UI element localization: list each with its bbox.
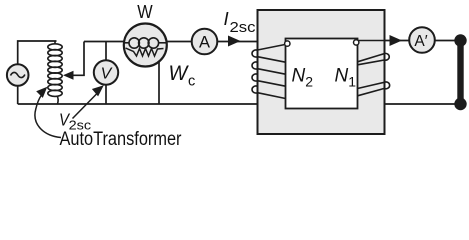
ammeter A: [192, 29, 218, 55]
wire bottom right: [385, 103, 461, 105]
autotransformer tap wiper wire: [70, 42, 84, 76]
svg-text:c: c: [188, 73, 195, 89]
svg-text:W: W: [137, 1, 153, 22]
voltmeter branch wire: [105, 42, 107, 105]
svg-text:N: N: [335, 66, 349, 87]
winding N1 top wire: [359, 40, 385, 42]
winding N1 diagonal 1a: [358, 54, 385, 62]
transformer core outer box: [258, 10, 385, 134]
winding N2 diagonal 1: [258, 57, 286, 63]
winding N1 diagonal 1b: [358, 60, 385, 65]
winding N1 diagonal 2a: [358, 82, 385, 88]
winding N1 hook 1: [384, 53, 389, 60]
junction dot bottom: [454, 98, 466, 110]
svg-text:2: 2: [305, 74, 313, 90]
winding N1 hook 2: [384, 82, 389, 89]
svg-text:V: V: [101, 66, 113, 83]
winding N2: [252, 45, 285, 99]
ammeter A': [409, 27, 435, 53]
svg-text:2sc: 2sc: [230, 20, 256, 36]
voltmeter V: [94, 60, 118, 84]
transformer core window (white box): [286, 39, 358, 109]
svg-text:AutoTransformer: AutoTransformer: [60, 129, 183, 149]
pointer arrowhead to coil: [36, 87, 47, 98]
output wire to A': [385, 40, 411, 42]
svg-text:I: I: [224, 8, 229, 29]
winding N2 top diagonal: [258, 45, 286, 51]
winding N2 hook 1: [252, 50, 257, 57]
pointer arrow to coil (curved): [35, 95, 61, 138]
wire bottom rail: [18, 103, 258, 105]
ac source G1: [7, 64, 29, 86]
winding N1 diagonal 2b: [358, 88, 385, 95]
winding N2 hook 2: [252, 62, 257, 69]
autotransformer tap arrowhead: [63, 71, 74, 80]
junction dot top: [454, 34, 466, 46]
wattmeter voltage zigzag: [126, 48, 164, 56]
wire top rail: [84, 41, 286, 43]
winding N2 hook 3: [252, 74, 257, 81]
winding N1: [358, 41, 390, 96]
svg-text:A′: A′: [414, 33, 427, 50]
winding N2 diagonal 2: [258, 69, 286, 75]
winding N2 hook 4: [252, 86, 257, 93]
winding N1 terminal: [354, 40, 359, 45]
pointer arrowhead to voltmeter: [92, 85, 104, 96]
svg-text:W: W: [169, 62, 190, 85]
winding N2 diagonal 3: [258, 81, 286, 87]
svg-text:N: N: [292, 66, 306, 87]
output arrowhead: [390, 35, 403, 46]
wire left-bottom: [17, 86, 19, 104]
wattmeter current coil: [125, 38, 167, 48]
winding N2 diagonal 4: [258, 93, 286, 99]
wire A' to bar: [435, 40, 461, 42]
pointer arrow to voltmeter: [73, 94, 97, 119]
winding N2 terminal: [285, 41, 290, 46]
wattmeter pressure-coil wire: [158, 59, 160, 104]
svg-text:A: A: [199, 34, 210, 52]
autotransformer T1 coil: [48, 41, 62, 104]
wattmeter W: [124, 24, 167, 67]
wire left-top: [18, 41, 57, 65]
svg-text:1: 1: [348, 74, 356, 90]
short-circuit bar: [457, 41, 463, 105]
current direction arrowhead I2sc: [228, 36, 241, 47]
